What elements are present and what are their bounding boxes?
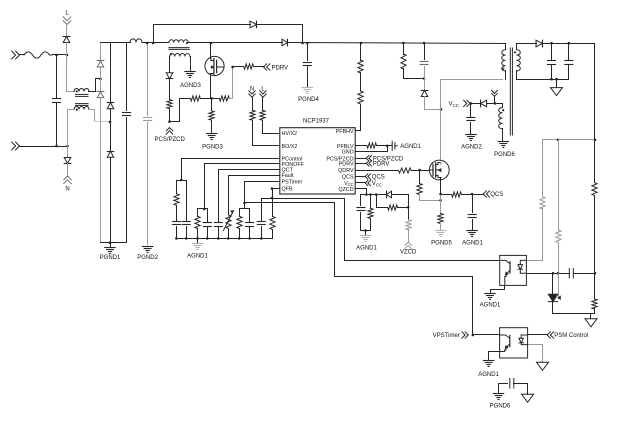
- node rail R19: [360, 42, 363, 45]
- node clamp: [423, 77, 426, 80]
- resistor R16: [237, 209, 242, 239]
- node rail junction B: [152, 42, 155, 45]
- wire PFBHV pin: [356, 105, 361, 131]
- common-mode choke T1 core: [76, 94, 89, 96]
- connector L top: [260, 87, 266, 98]
- connector QCS pin label: [356, 174, 385, 181]
- diode D5 neutral: [64, 147, 71, 177]
- resistor R11 pgnd3: [209, 99, 214, 133]
- svg-text:PDRV: PDRV: [272, 65, 289, 71]
- wire PSTimer: [245, 182, 280, 203]
- wire PONOFF: [205, 164, 280, 209]
- svg-text:VCC: VCC: [372, 181, 383, 187]
- node fb b: [594, 139, 597, 142]
- wire Fault: [229, 176, 280, 215]
- svg-text:PSTimer: PSTimer: [282, 179, 303, 185]
- connector N top: [249, 87, 255, 98]
- connector PSM Control: [547, 332, 588, 339]
- svg-text:VCC: VCC: [449, 102, 460, 108]
- common-mode choke T1 winding B: [74, 107, 89, 111]
- svg-text:PGND2: PGND2: [137, 255, 158, 261]
- diode D9 vcc: [471, 100, 495, 107]
- wire choke A to bridge: [89, 79, 101, 92]
- resistor R14 + capacitor C14: [172, 181, 180, 239]
- connector VZCD: [400, 242, 417, 255]
- connector L (top): [63, 11, 71, 25]
- svg-text:AGND2: AGND2: [461, 145, 482, 151]
- wire QFB pin: [273, 188, 280, 190]
- svg-text:N: N: [65, 187, 69, 193]
- wire QCT: [219, 170, 280, 222]
- wire ycap left: [498, 384, 500, 393]
- fuse F1: [24, 52, 52, 58]
- ground PGND6 aux: [494, 142, 515, 159]
- svg-text:QCS: QCS: [342, 175, 354, 181]
- wire pcs node to source row: [170, 99, 191, 122]
- ground AGND1 opto2: [478, 361, 499, 379]
- connector PCS/PZCD: [155, 128, 186, 143]
- node vzcd junction: [407, 206, 410, 209]
- PFC inductor T2 core: [169, 48, 189, 50]
- svg-text:PGND1: PGND1: [100, 255, 121, 261]
- diode D4 boost: [282, 39, 288, 46]
- node pfblv-gnd: [386, 145, 389, 148]
- bridge leg DB1 lower: [97, 79, 104, 243]
- node qcs filter: [471, 193, 474, 196]
- transistor Q1 PFC mosfet: [205, 43, 224, 99]
- resistor R23 qzcd: [368, 195, 373, 231]
- diode D3 bypass: [250, 21, 257, 28]
- ground PGND5: [431, 231, 452, 247]
- node rail R26: [402, 42, 405, 45]
- wire secondary top rail: [543, 44, 595, 140]
- wire Rg to PDRV: [254, 66, 264, 68]
- svg-text:AGND1: AGND1: [478, 372, 499, 378]
- wire aux top: [495, 104, 503, 108]
- resistor R28 qcs sense: [441, 192, 484, 197]
- node qzcd b: [369, 193, 372, 196]
- bridge leg DB2 upper: [107, 43, 114, 152]
- bridge leg DB1 upper: [97, 43, 104, 79]
- resistor R31 fb: [556, 140, 561, 274]
- node N-line junction2: [66, 145, 69, 148]
- capacitor C2 bulk: [123, 43, 131, 243]
- wire PFBLV pin: [356, 145, 367, 147]
- ground chassis opto2: [537, 362, 549, 370]
- wire aux right to AGND3: [190, 57, 192, 71]
- optocoupler U2 internals: [500, 260, 527, 285]
- ground AGND1 left: [187, 239, 208, 260]
- node rail C20: [423, 42, 426, 45]
- node qzcd a: [365, 193, 368, 196]
- node N-line junction1: [55, 145, 58, 148]
- node source return: [439, 199, 442, 202]
- optocoupler U3 internals: [500, 335, 528, 352]
- svg-text:PCS/PZCD: PCS/PZCD: [155, 137, 186, 143]
- wire qzcd gnd tie: [361, 230, 371, 232]
- node rail junction A: [146, 42, 149, 45]
- ground chassis divider: [585, 314, 597, 327]
- wire main rail: [101, 43, 506, 44]
- capacitor C10 agnd1: [392, 141, 421, 150]
- connector PDRV label: [264, 64, 289, 72]
- node qfb b: [271, 197, 274, 200]
- connector N (bottom): [64, 176, 72, 193]
- connector aux up: [492, 91, 498, 104]
- node vcc junction: [470, 102, 473, 105]
- resistor R20 pfbhv lower: [358, 73, 363, 105]
- wire tl431 anode row: [553, 313, 595, 315]
- wire choke B left lead: [68, 110, 75, 147]
- ground PGND4: [298, 88, 319, 104]
- node div mid: [594, 272, 597, 275]
- wire to source node: [201, 98, 220, 100]
- potentiometer RV1: [224, 211, 234, 239]
- resistor R29 pgnd5: [438, 201, 443, 230]
- connector J2 neutral input: [12, 142, 68, 150]
- svg-text:AGND1: AGND1: [356, 246, 377, 252]
- wire gate to Rg: [233, 66, 244, 68]
- ground PGND3: [202, 134, 223, 151]
- svg-text:PGND4: PGND4: [298, 97, 319, 103]
- PFC inductor T2 main winding: [169, 40, 188, 44]
- capacitor C11 qzcd: [357, 195, 365, 231]
- svg-text:AGND1: AGND1: [400, 144, 421, 150]
- wire bypass top: [154, 25, 251, 43]
- resistor R33 divider bottom: [592, 274, 597, 314]
- capacitor C25 series fb: [569, 269, 594, 279]
- node out cap1 top: [550, 42, 553, 45]
- node fuse/X2cap junction: [55, 54, 58, 57]
- transformer T3 aux winding: [499, 108, 505, 129]
- resistor R27 gate pulldown: [417, 171, 441, 201]
- svg-text:QFB: QFB: [282, 186, 293, 192]
- wire secondary return: [517, 79, 569, 81]
- wire aux bottom: [502, 129, 504, 141]
- node tl431 k: [552, 272, 555, 275]
- svg-text:QZCD: QZCD: [338, 187, 353, 193]
- svg-text:GND: GND: [342, 150, 354, 156]
- ground AGND1 qcs: [462, 231, 483, 247]
- svg-text:QCS: QCS: [490, 192, 503, 198]
- resistor R15: [195, 209, 200, 239]
- svg-text:VCC: VCC: [344, 181, 354, 187]
- ground chassis secondary: [551, 80, 563, 96]
- svg-text:PGND5: PGND5: [431, 241, 452, 247]
- connector QCS label: [483, 191, 503, 198]
- wire L connector to D1: [66, 25, 68, 37]
- svg-text:NCP1937: NCP1937: [303, 119, 330, 125]
- node agnd rail dots: [175, 237, 263, 240]
- node vpstimer: [472, 334, 475, 337]
- svg-text:VPSTimer: VPSTimer: [433, 333, 460, 339]
- svg-text:QDRV: QDRV: [338, 168, 354, 174]
- connector VPSTimer: [433, 332, 469, 339]
- svg-text:AGND1: AGND1: [187, 254, 208, 260]
- U1 left pin labels: [282, 131, 305, 192]
- capacitor C21 qcs: [468, 195, 476, 230]
- node boost output: [301, 42, 308, 45]
- svg-text:HV/X2: HV/X2: [282, 131, 298, 137]
- resistor R22 qdrv gate: [399, 168, 430, 173]
- wire vpstimer to opto2: [473, 334, 499, 336]
- capacitor CX1: [53, 55, 61, 147]
- resistor R17 qfb: [270, 199, 275, 239]
- node qzcd c: [375, 193, 378, 196]
- resistor R21 pfblv: [367, 143, 392, 148]
- choke T1 core line 2: [76, 104, 89, 106]
- node vcc d: [494, 102, 497, 105]
- wire choke B to bridge: [89, 110, 111, 122]
- U1 right pin labels: [326, 129, 354, 193]
- connector VCC pin label: [356, 180, 384, 187]
- capacitor C19: [257, 199, 272, 239]
- inductor L2 filter: [130, 39, 142, 43]
- ground PGND1: [100, 243, 121, 262]
- PFC inductor T2 aux winding: [170, 53, 190, 56]
- node drain junction: [440, 108, 443, 111]
- ground PGND6 ycap: [490, 394, 511, 410]
- op-amp U1 NCP1937 box: [280, 119, 355, 194]
- connector PCS/PZCD pin label: [356, 156, 404, 163]
- node return a: [550, 78, 553, 81]
- resistor R9 gate return: [219, 96, 229, 101]
- transformer T3 primary: [502, 44, 506, 80]
- wire PGND1 rail: [101, 242, 127, 244]
- resistor R24 qzcd series: [377, 195, 409, 211]
- connector PDRV pin label: [356, 161, 390, 168]
- wire ponoff tie: [198, 208, 208, 211]
- svg-text:BO/X2: BO/X2: [282, 144, 298, 150]
- svg-text:PFBHV: PFBHV: [336, 129, 354, 135]
- wire source: [440, 195, 442, 201]
- svg-text:PGND3: PGND3: [202, 145, 223, 151]
- node qdrv junction: [418, 169, 421, 172]
- resistor R26 clamp: [401, 43, 425, 79]
- wire QDRV pin: [356, 170, 399, 172]
- capacitor C16: [203, 209, 211, 239]
- node qzcd gnd: [364, 229, 367, 232]
- wire ycap right: [527, 384, 529, 395]
- wire opto1 emitter: [491, 286, 505, 293]
- svg-text:N: N: [250, 87, 254, 93]
- node fb a: [557, 139, 560, 142]
- resistor R19 pfbhv upper: [358, 43, 363, 74]
- transistor Q2 QR mosfet: [429, 160, 449, 194]
- svg-text:QCS: QCS: [372, 175, 385, 181]
- wire drain: [440, 110, 442, 161]
- optocoupler U2 box: [500, 255, 527, 285]
- node PCS/PZCD: [168, 120, 171, 123]
- node bridge AC1: [99, 78, 102, 81]
- ground PGND2: [137, 247, 158, 262]
- resistor R30 led series: [527, 140, 546, 261]
- wire opto2 led return: [529, 345, 543, 363]
- capacitor C20 clamp: [420, 43, 428, 79]
- capacitor C22 out: [548, 44, 556, 80]
- wire opto1 led bottom: [527, 273, 570, 275]
- transformer T3 core: [510, 48, 512, 135]
- svg-text:VZCD: VZCD: [400, 250, 417, 256]
- capacitor C3: [144, 43, 152, 245]
- diode D6 clamp: [421, 79, 440, 110]
- node PGND1 junction: [109, 241, 112, 244]
- wire opto2 output: [529, 334, 548, 336]
- wire fb top rail: [543, 139, 595, 141]
- ground AGND2: [461, 135, 482, 151]
- node rail drain junction: [210, 42, 213, 45]
- bridge leg DB2 lower: [107, 151, 114, 242]
- node qcs tap: [439, 193, 442, 196]
- wire gate return up: [230, 67, 233, 99]
- wire pstimer tie: [240, 203, 250, 209]
- node PFC gate junction: [231, 66, 234, 69]
- node return b: [555, 78, 558, 81]
- capacitor C24 vcc: [467, 104, 475, 134]
- wire QZCD pin: [356, 189, 367, 195]
- wire QFB to opto: [273, 199, 499, 261]
- resistor R25 vzcd: [406, 208, 411, 243]
- resistor R10 gate: [244, 64, 254, 69]
- common-mode choke T1 winding A: [74, 89, 89, 93]
- capacitor C17: [214, 223, 222, 239]
- resistor R8 sense: [190, 96, 200, 101]
- ground AGND1 opto1: [480, 294, 501, 309]
- resistor R7 zcd: [167, 100, 172, 122]
- shunt regulator U4 TL431: [548, 274, 560, 314]
- resistor R32 divider top: [592, 140, 597, 274]
- wire primary bottom: [441, 80, 503, 110]
- wire fuse to node: [53, 54, 67, 56]
- transformer T3 secondary: [514, 44, 537, 80]
- node pcontrol tie: [180, 179, 183, 182]
- svg-text:AGND3: AGND3: [180, 83, 201, 89]
- wire PSTimer to VPSTimer: [245, 203, 473, 335]
- node L-line junction: [66, 54, 69, 57]
- resistor R12: [250, 98, 280, 146]
- wire qzcd node row: [361, 194, 377, 196]
- node qfb a: [271, 187, 274, 190]
- capacitor C6 bulk PFC: [303, 43, 311, 87]
- ground AGND3: [180, 72, 201, 90]
- capacitor C26 Y-cap: [499, 379, 528, 389]
- wire bypass to bulk node: [257, 25, 303, 43]
- optocoupler U3 box: [500, 328, 528, 358]
- node bridge AC2: [109, 121, 112, 124]
- connector J1 line input: [12, 51, 25, 59]
- svg-text:AGND1: AGND1: [462, 241, 483, 247]
- ground chassis ycap: [522, 394, 534, 402]
- wire PControl: [182, 159, 280, 181]
- wire D1 down to choke: [67, 43, 75, 92]
- svg-text:Fault: Fault: [282, 173, 294, 179]
- capacitor C15: [182, 181, 190, 239]
- svg-text:AGND1: AGND1: [480, 303, 501, 309]
- wire qfb down: [272, 189, 274, 199]
- svg-text:PDRV: PDRV: [373, 162, 390, 168]
- svg-text:PGND6: PGND6: [494, 152, 515, 158]
- diode D8 qzcd: [377, 191, 409, 207]
- svg-text:PGND6: PGND6: [490, 404, 511, 410]
- ground AGND1 qzcd: [356, 231, 377, 252]
- wire opto2 emitter: [489, 352, 500, 360]
- node pstimer: [243, 202, 246, 205]
- node tl431 ref: [557, 272, 560, 275]
- wire GND pin: [356, 146, 388, 152]
- connector Vcc: [449, 100, 471, 108]
- diode D2 zcd: [166, 57, 173, 100]
- svg-text:PDRV: PDRV: [339, 162, 354, 168]
- resistor R13: [260, 98, 280, 134]
- capacitor C18: [246, 209, 254, 239]
- node PFC source: [210, 97, 213, 100]
- diode D1: [63, 37, 70, 43]
- wire AGND1 rail: [177, 238, 273, 240]
- capacitor C23 out: [565, 44, 573, 80]
- diode D7 output: [536, 40, 543, 47]
- svg-text:PSM Control: PSM Control: [554, 333, 588, 339]
- node out cap2 top: [568, 42, 571, 45]
- wire pcontrol tie: [177, 180, 187, 182]
